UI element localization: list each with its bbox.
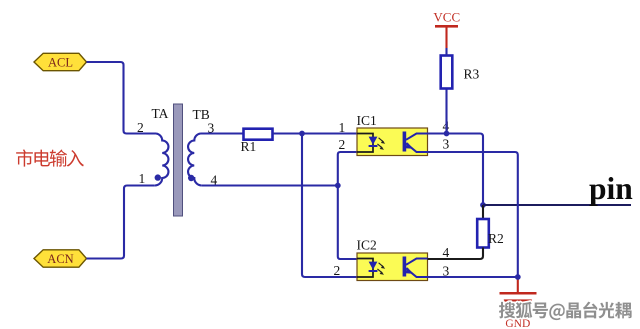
port ACL (34, 53, 87, 70)
power ground GND (500, 274, 537, 329)
label mains input (red) (16, 149, 84, 166)
resistor R1 (244, 129, 273, 140)
wire IC1 pin3 down to node E (428, 152, 518, 277)
svg-text:4: 4 (443, 245, 450, 260)
resistor R2 (477, 219, 489, 248)
svg-text:R2: R2 (488, 231, 504, 246)
svg-text:pin: pin (589, 171, 633, 206)
wire pin output (483, 204, 631, 206)
node B junction (335, 183, 341, 189)
svg-text:ACN: ACN (47, 252, 73, 266)
opto-coupler IC2 (357, 253, 428, 281)
wire R1 to node A to IC1 pin1 (273, 132, 358, 134)
svg-text:1: 1 (339, 120, 346, 135)
transformer TB winding (188, 134, 202, 186)
svg-text:1: 1 (139, 171, 146, 186)
wire IC1 pin4 to node C to corner down to node D (428, 134, 484, 206)
TA phase dot (155, 174, 161, 180)
svg-text:IC1: IC1 (357, 113, 377, 128)
svg-text:2: 2 (334, 263, 341, 278)
wire TB pin4 to node B (202, 184, 338, 186)
resistor R3 (441, 56, 453, 89)
opto-coupler IC1 (357, 128, 428, 156)
svg-text:TA: TA (152, 106, 169, 121)
wire IC1 pin2 through node B to IC2 pin1 (338, 152, 357, 259)
power port VCC (433, 10, 460, 48)
wire R3 bottom (445, 89, 447, 134)
port ACN (34, 250, 87, 267)
svg-text:R3: R3 (464, 66, 480, 81)
svg-text:VCC: VCC (433, 10, 460, 25)
TB phase dot (188, 175, 194, 181)
watermark sohu (499, 302, 632, 320)
wire ACN to TA pin1 (87, 186, 155, 259)
node D junction (R2 top / pin line) (480, 202, 486, 208)
svg-text:R1: R1 (241, 139, 257, 154)
svg-text:2: 2 (137, 120, 144, 135)
svg-text:2: 2 (339, 137, 346, 152)
transformer T core (174, 104, 183, 216)
wire IC2 pin3 to node E (428, 276, 518, 278)
wire node A down to IC2 pin2 (302, 134, 357, 278)
node C junction (R3 bottom) (444, 131, 450, 137)
transformer TA winding (155, 134, 169, 186)
svg-text:IC2: IC2 (357, 237, 377, 252)
wire ACL to TA pin2 (87, 62, 157, 134)
svg-text:ACL: ACL (48, 55, 73, 69)
wire R3 top (445, 48, 447, 56)
node A junction (299, 131, 305, 137)
wire TB pin3 to R1 (201, 132, 244, 134)
wire R2 bottom to IC2 pin4 (428, 248, 484, 260)
wire node D to R2 (482, 205, 484, 219)
svg-text:3: 3 (443, 136, 450, 151)
